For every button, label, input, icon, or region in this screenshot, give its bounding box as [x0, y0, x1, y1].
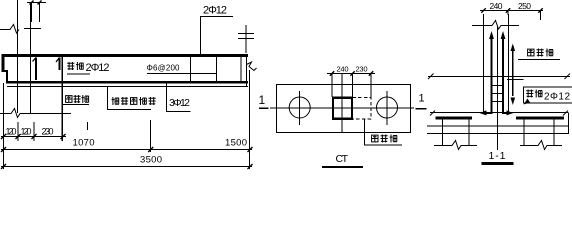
planted bar anchor right	[59, 58, 61, 71]
wall line right	[30, 2, 32, 113]
rebar b2 foot arrowhead	[507, 110, 514, 115]
wall top ledge	[24, 28, 41, 30]
column centerline	[496, 27, 498, 150]
wire: top dim extension lines	[32, 2, 40, 22]
title CT underline	[322, 166, 363, 168]
svg-text:240: 240	[337, 65, 349, 74]
plan dim line	[327, 73, 375, 75]
label 2Φ12 leader	[200, 17, 233, 55]
rebar b1 foot	[484, 112, 492, 114]
fiber wrap band right	[516, 116, 564, 119]
bottom break line right	[520, 141, 562, 150]
wire: top mini dim line	[27, 2, 46, 4]
plan label 后砌柱	[372, 135, 378, 142]
lower wall break zigzag	[0, 109, 71, 118]
svg-text:1070: 1070	[73, 138, 95, 149]
beam right break zigzag	[247, 62, 257, 71]
wall line left	[17, 0, 19, 113]
beam top surface line	[428, 76, 570, 78]
beam top chord	[2, 54, 248, 57]
rebar b1	[491, 36, 493, 113]
label 植筋2Φ12 (beam)	[67, 62, 74, 70]
label 植筋2Φ12 box	[523, 87, 572, 103]
beam interior verticals	[191, 57, 242, 81]
plan centerline	[270, 107, 414, 109]
dim row1 line	[1, 136, 66, 138]
rebar b2 foot	[502, 112, 509, 114]
column stirrup rungs	[491, 86, 504, 102]
dim row1 ticks	[1, 134, 66, 139]
svg-text:230: 230	[356, 65, 368, 74]
rebar b2 up arrowhead	[501, 31, 506, 39]
label 贴玻纤维布	[112, 97, 119, 105]
solid column square	[333, 98, 352, 119]
slab right edge	[568, 113, 570, 134]
svg-text:120: 120	[6, 127, 17, 137]
dim row3 ticks	[1, 164, 253, 169]
rebar b4	[512, 48, 514, 96]
label underline 植筋2Φ12	[67, 73, 90, 75]
svg-text:1: 1	[419, 93, 425, 105]
section dim line	[480, 10, 543, 12]
label 3Φ12 box	[167, 82, 191, 112]
beam bottom line end ticks	[430, 111, 568, 116]
plan cut stub right	[416, 108, 427, 110]
beam right end	[246, 57, 248, 87]
svg-text:230: 230	[42, 127, 54, 137]
section dim extensions	[508, 11, 541, 21]
label 后砌柱 underline	[62, 104, 89, 106]
svg-text:250: 250	[518, 1, 531, 11]
title 1-1 underline	[482, 162, 514, 165]
svg-text:1: 1	[259, 93, 266, 107]
plan cut stub left	[259, 107, 269, 109]
svg-text:1500: 1500	[225, 138, 247, 149]
beam left end notch	[2, 54, 5, 72]
left column circle	[289, 97, 310, 118]
right column circle	[377, 97, 398, 118]
label 后砌柱 (beam)	[66, 96, 72, 103]
dim row1 extension lines	[4, 122, 35, 141]
beam bottom lower line	[7, 86, 248, 88]
svg-text:CT: CT	[336, 153, 349, 165]
rebar b4 up arrowhead	[511, 44, 516, 52]
planted bar hook flags	[33, 58, 60, 63]
svg-text:3500: 3500	[140, 155, 162, 166]
beam bottom line	[430, 112, 568, 114]
svg-text:Φ6@200: Φ6@200	[147, 64, 181, 73]
rebar b2	[502, 36, 504, 113]
label 后砌柱 underline (section)	[518, 59, 560, 61]
slab line mid	[427, 125, 569, 127]
left wall edge below beam	[3, 83, 5, 169]
post-built column edge line	[61, 57, 63, 141]
beam bottom chord	[6, 81, 248, 84]
label 贴玻纤维布 box	[108, 87, 152, 110]
svg-text:2Φ12: 2Φ12	[86, 62, 110, 74]
plan dim extensions	[332, 73, 371, 97]
label 植筋2Φ12 leader	[507, 79, 523, 81]
planted bar anchor left	[35, 58, 37, 81]
svg-text:2Φ12: 2Φ12	[203, 5, 227, 17]
rebar b1 up arrowhead	[489, 31, 494, 39]
bottom break line left	[434, 141, 477, 150]
column right edge	[508, 14, 510, 114]
fiber wrap band left	[436, 116, 473, 119]
beam end extension line	[249, 70, 251, 169]
square centerline	[341, 73, 343, 132]
leader arrowhead 植筋	[524, 99, 530, 105]
column top break line	[472, 21, 519, 30]
beam top line end ticks	[428, 74, 570, 80]
dim row2 ticks	[1, 147, 253, 152]
plan dim ticks	[330, 71, 373, 75]
wall top break zigzag	[0, 25, 19, 34]
top dim ticks	[30, 1, 42, 5]
svg-text:2Φ12: 2Φ12	[544, 92, 570, 103]
rebar splice cross symbol	[245, 25, 247, 53]
svg-text:240: 240	[490, 1, 503, 11]
label 后砌柱 leader stub	[87, 122, 89, 130]
plan label 后砌柱 leader	[364, 120, 402, 146]
section label 植筋2Φ12	[526, 90, 533, 98]
svg-text:3Φ12: 3Φ12	[169, 97, 190, 109]
right circle centerline	[386, 91, 388, 125]
rebar b1 foot arrowhead	[479, 110, 486, 115]
stirrup label underline	[147, 73, 217, 75]
section dim ticks	[481, 8, 542, 12]
plan outer rect	[277, 85, 411, 133]
rebar b4 down arrowhead	[511, 98, 516, 106]
section label 后砌柱	[528, 49, 534, 56]
slab line lower	[427, 133, 569, 135]
below-beam verticals	[443, 120, 555, 146]
dim row3 line	[1, 166, 252, 168]
dim row2 mid extension	[150, 120, 152, 152]
svg-text:1-1: 1-1	[489, 150, 506, 162]
svg-text:120: 120	[21, 127, 32, 137]
column left edge	[483, 14, 485, 114]
dim row2 line	[1, 149, 252, 151]
left circle centerline	[299, 91, 301, 125]
dashed square 后砌柱	[353, 98, 372, 120]
